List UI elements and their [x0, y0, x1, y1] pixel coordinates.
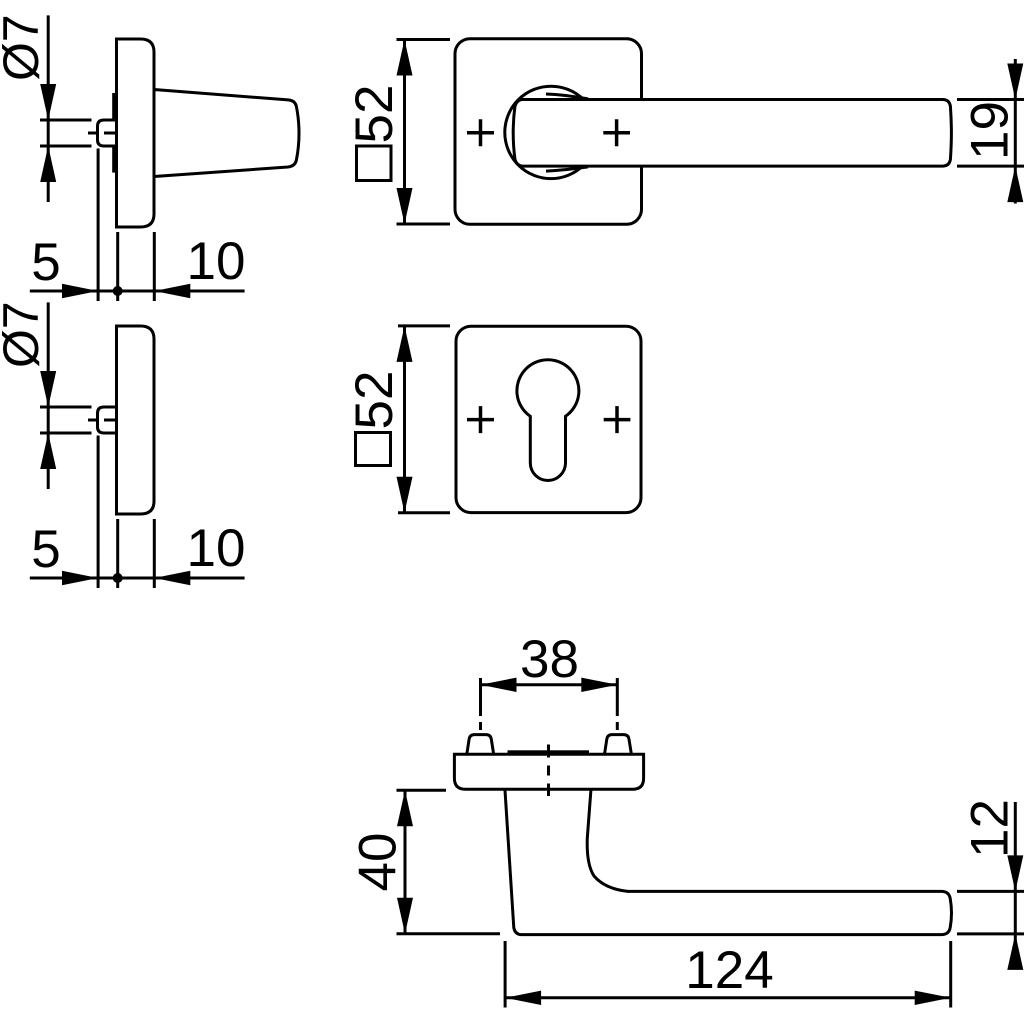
dimension line 52 (view3)	[403, 40, 406, 225]
arrow up tip 52 top (view4)	[397, 326, 413, 362]
dimension line 52 (view4)	[403, 326, 406, 513]
handle outline (view5)	[505, 790, 952, 934]
arrow down tip 12 top (view5)	[1007, 855, 1023, 891]
arrow up tip 12 bottom (view5)	[1007, 934, 1023, 970]
tick 52 bottom (view3)	[397, 223, 451, 226]
arrow up tip 52 top (view3)	[397, 40, 413, 76]
collar circle (view3)	[505, 86, 597, 178]
screw cross right (view4)	[604, 406, 631, 433]
extension line plate-right (view1)	[153, 232, 156, 301]
dimension line 5/10 (view1)	[30, 290, 245, 293]
dimension line 5/10 (view2)	[30, 577, 245, 580]
arrow right tip 38 (view5)	[581, 678, 617, 692]
tick 12 bottom (view5)	[957, 932, 1024, 935]
dimension line 19 (view3)	[1014, 59, 1017, 204]
arrow down Ø7 top (view2)	[40, 371, 56, 407]
arrow right tip 5 (view2)	[62, 571, 98, 585]
extension line plate-left (view2)	[116, 519, 119, 588]
arrow down tip 52 bottom (view3)	[397, 188, 413, 224]
tick 52 top (view4)	[398, 324, 450, 327]
svg-text:52: 52	[345, 371, 404, 430]
tick 12 top (view5)	[957, 890, 1024, 893]
arrow up tip 19 bottom (view3)	[1007, 166, 1023, 202]
arrow right tip 124 (view5)	[915, 991, 951, 1005]
tick Ø7 bottom (view2)	[40, 432, 92, 435]
dot junction (view1)	[113, 286, 123, 296]
arrow right tip 5 (view1)	[62, 284, 98, 298]
label square52 (view3)	[357, 146, 392, 181]
tick Ø7 bottom (view1)	[40, 145, 92, 148]
arrow left tip 124 (view5)	[505, 991, 541, 1005]
screw head right (view5)	[605, 735, 632, 755]
square rose (view3)	[455, 39, 642, 225]
svg-text:5: 5	[31, 520, 60, 579]
arrow down tip 19 top (view3)	[1007, 64, 1023, 100]
arrow left tip 10 (view1)	[154, 284, 190, 298]
screw head left (view5)	[467, 735, 494, 755]
extension line plate-left (view1)	[116, 232, 119, 301]
tick 52 bottom (view4)	[398, 511, 450, 514]
dimension line 40 (view5)	[404, 790, 407, 934]
extension line plate-right (view2)	[153, 519, 156, 588]
handle neck cone (view1)	[154, 90, 299, 177]
dashed centerline stub (view1)	[88, 132, 127, 135]
euro profile cylinder hole (view4)	[517, 360, 579, 481]
extension line stub-left (view1)	[97, 149, 100, 302]
tick 40 top (view5)	[397, 789, 447, 792]
rose plate side (view5)	[454, 754, 643, 789]
svg-text:12: 12	[961, 799, 1020, 858]
tick 52 top (view3)	[397, 38, 451, 41]
dimension line Ø7 (view2)	[47, 302, 50, 489]
spindle stub (view2)	[98, 407, 118, 433]
tick 19 bottom (view3)	[957, 165, 1024, 168]
lever bar (view3)	[513, 100, 951, 167]
extension line stub-left (view2)	[97, 436, 100, 589]
svg-text:40: 40	[349, 833, 408, 892]
screw cross left (view4)	[467, 406, 494, 433]
dashed centerline stub (view2)	[88, 419, 127, 422]
arrow left tip 38 (view5)	[481, 678, 517, 692]
svg-text:10: 10	[187, 232, 246, 291]
extension line 124 right (view5)	[949, 941, 952, 1008]
square rose (view4)	[456, 326, 641, 512]
svg-text:Ø7: Ø7	[0, 14, 49, 81]
arrow down Ø7 top (view1)	[40, 84, 56, 120]
dimension line 38 (view5)	[481, 683, 618, 686]
dashed centerline plate (view5)	[547, 745, 550, 797]
tick 40 bottom (view5)	[397, 932, 501, 935]
svg-text:5: 5	[31, 233, 60, 292]
centerline screw left (view5)	[479, 678, 482, 760]
rosette plate side (view2)	[117, 326, 155, 514]
screw cross right (view3)	[603, 119, 630, 146]
arrow up Ø7 bottom (view2)	[40, 433, 56, 469]
tick 19 top (view3)	[957, 98, 1024, 101]
dimension line 124 (view5)	[505, 996, 951, 999]
tick Ø7 top (view2)	[40, 406, 92, 409]
centerline screw right (view5)	[616, 678, 619, 760]
rosette plate side (view1)	[117, 39, 155, 227]
label square52 (view4)	[356, 433, 391, 466]
dimension line Ø7 (view1)	[47, 15, 50, 202]
svg-text:124: 124	[685, 941, 773, 1000]
black bearing bar behind plate (view1)	[112, 93, 117, 173]
screw cross left (view3)	[467, 119, 494, 146]
svg-text:52: 52	[345, 85, 404, 144]
collar fillet bottom (view3)	[546, 167, 588, 171]
arrow down tip 40 bottom (view5)	[397, 898, 413, 934]
spindle stub (view1)	[98, 120, 118, 146]
dimension line 12 (view5)	[1014, 802, 1017, 970]
svg-text:10: 10	[187, 519, 246, 578]
arrow down tip 52 bottom (view4)	[397, 477, 413, 513]
collar fillet top (view3)	[546, 94, 588, 99]
svg-text:38: 38	[520, 630, 579, 689]
spindle band on plate (view5)	[508, 750, 590, 754]
dot junction (view2)	[113, 573, 123, 583]
arrow left tip 10 (view2)	[154, 571, 190, 585]
arrow up tip 40 top (view5)	[397, 790, 413, 826]
svg-text:19: 19	[961, 101, 1020, 160]
tick Ø7 top (view1)	[40, 119, 92, 122]
svg-text:Ø7: Ø7	[0, 301, 49, 368]
arrow up Ø7 bottom (view1)	[40, 146, 56, 182]
extension line 124 left (view5)	[504, 941, 507, 1008]
